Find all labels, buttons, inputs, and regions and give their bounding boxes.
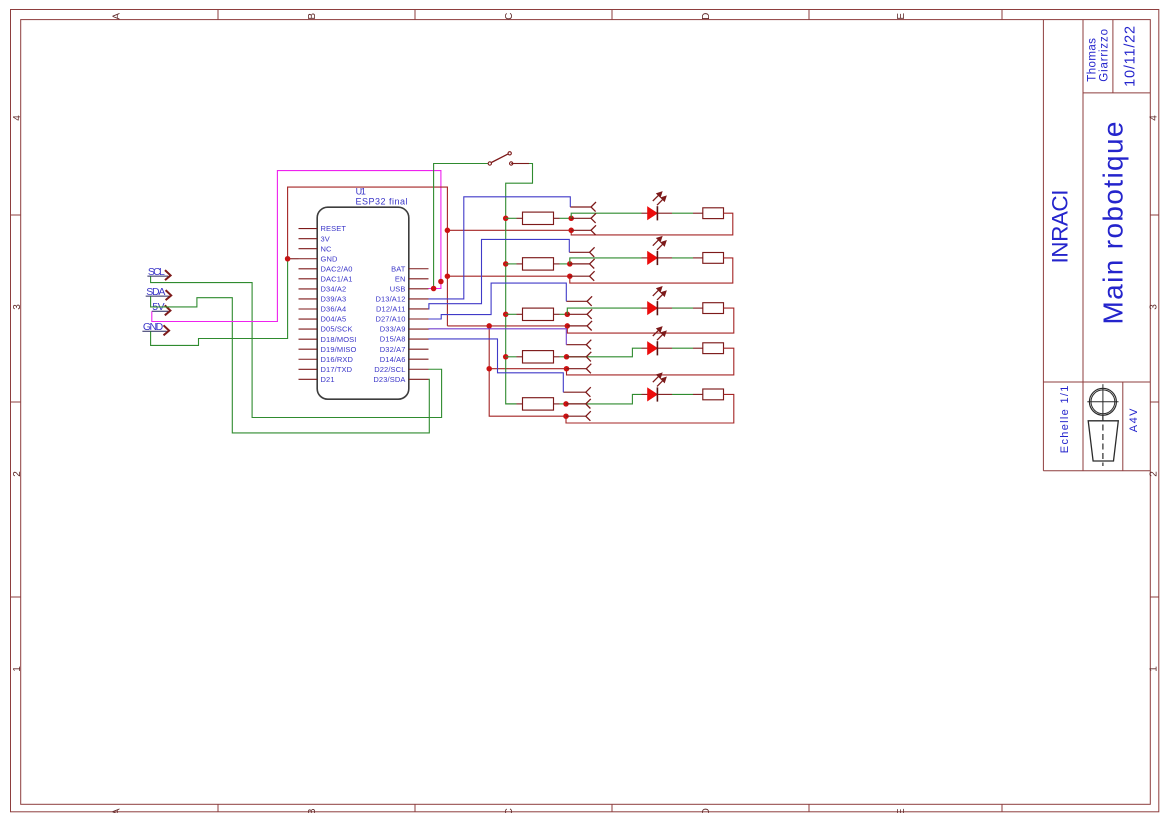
- wire GND riser to rows 4-5: [489, 326, 566, 416]
- svg-text:1: 1: [1148, 666, 1159, 672]
- wire signal D33/A9 to J4 pin1 (purple): [429, 329, 567, 345]
- svg-text:2: 2: [1148, 471, 1159, 477]
- wire signal D27/A10 to J3 pin1 (blue): [429, 283, 567, 319]
- svg-text:C: C: [504, 808, 515, 813]
- LED D2 light emission arrows: [653, 237, 666, 250]
- connector J2 pin3: [570, 271, 595, 281]
- svg-text:D05/SCK: D05/SCK: [321, 325, 353, 334]
- resistor R3B: [693, 303, 724, 314]
- U1 pin D15/A8: [380, 335, 429, 344]
- connector J1 pin2: [571, 213, 596, 223]
- U1 pin BAT: [391, 264, 428, 273]
- junction feed rail row2: [503, 261, 509, 267]
- wire return loop row2: [570, 258, 733, 283]
- wire switch input green (USB riser to switch): [434, 164, 488, 289]
- svg-text:D14/A6: D14/A6: [380, 355, 406, 364]
- svg-text:RESET: RESET: [321, 224, 347, 233]
- U1 pin D12/A11: [376, 305, 428, 314]
- wire to LED D1 anode: [571, 213, 641, 218]
- U1 pin NC: [299, 244, 333, 253]
- connector J2 pin1: [569, 247, 594, 257]
- junction feed rail row1: [503, 216, 509, 222]
- wire 5V net magenta (port to switch feed and USB pin): [152, 171, 441, 322]
- U1 pin D21: [299, 375, 335, 384]
- U1 pin 3V: [299, 234, 330, 243]
- U1 pin D05/SCK: [299, 325, 353, 334]
- U1 pin D22/SCL: [374, 365, 428, 374]
- svg-text:DAC1/A1: DAC1/A1: [321, 274, 353, 283]
- U1 pin D19/MISO: [299, 345, 357, 354]
- wire LED D3 cathode to resistor R3B: [672, 307, 693, 309]
- net port SCL: [147, 266, 170, 280]
- junction connector J4 pin2: [564, 354, 570, 360]
- svg-text:D34/A2: D34/A2: [321, 285, 347, 294]
- wire to LED D5 anode: [566, 394, 642, 404]
- svg-text:4: 4: [12, 115, 23, 121]
- wire resistor R4A to connector J4: [560, 356, 567, 358]
- connector J5 pin1: [563, 387, 591, 397]
- junction connector J1 pin2: [568, 216, 574, 222]
- wire resistor R5A to connector J5: [560, 403, 567, 405]
- wire feed to resistor R5A: [506, 403, 517, 405]
- junction GND row1: [445, 228, 451, 234]
- junction feed rail row3: [503, 312, 509, 318]
- junction GND rows 4-5 branch: [486, 323, 492, 329]
- resistor R5A: [517, 398, 560, 410]
- U1 pin D04/A5: [299, 315, 347, 324]
- connector J3 pin2: [567, 309, 592, 319]
- LED D1 light emission arrows: [653, 192, 666, 205]
- svg-text:D19/MISO: D19/MISO: [321, 345, 357, 354]
- resistor R5B: [693, 389, 724, 400]
- svg-text:D04/A5: D04/A5: [321, 315, 347, 324]
- LED D2: [642, 251, 673, 265]
- svg-text:D33/A9: D33/A9: [380, 325, 406, 334]
- svg-text:1: 1: [12, 666, 23, 672]
- wire SCL net (port to U1 D22/SCL): [151, 276, 442, 417]
- U1 pin D14/A6: [380, 355, 429, 364]
- svg-text:D21: D21: [321, 375, 335, 384]
- wire switch output to feed rail: [506, 164, 533, 404]
- junction connector J5 pin3: [563, 413, 569, 419]
- svg-text:D27/A10: D27/A10: [375, 315, 405, 324]
- wire LED D2 cathode to resistor R2B: [672, 257, 693, 259]
- U1 pin D18/MOSI: [299, 335, 357, 344]
- wire return loop row5: [566, 394, 734, 423]
- net port 5V: [152, 301, 171, 315]
- svg-text:Thomas: Thomas: [1086, 38, 1098, 82]
- U1 pin USB: [390, 284, 429, 293]
- LED D1: [642, 206, 673, 220]
- svg-text:D17/TXD: D17/TXD: [321, 365, 353, 374]
- connector J1 pin1: [570, 202, 596, 212]
- U1 pin RESET: [299, 224, 347, 233]
- svg-text:A4V: A4V: [1128, 408, 1140, 432]
- svg-text:A: A: [111, 13, 122, 20]
- svg-text:D15/A8: D15/A8: [380, 335, 406, 344]
- LED D3: [642, 301, 673, 315]
- wire feed to resistor R4A: [506, 356, 517, 358]
- wire LED D1 cathode to resistor R1B: [672, 212, 693, 214]
- connector J1 pin3: [571, 225, 596, 235]
- junction connector J4 pin3: [564, 366, 570, 372]
- svg-text:Giarrizzo: Giarrizzo: [1098, 29, 1110, 82]
- resistor R1A: [517, 212, 560, 224]
- connector J2 pin2: [570, 259, 595, 269]
- svg-text:D22/SCL: D22/SCL: [374, 365, 405, 374]
- svg-text:GND: GND: [321, 254, 338, 263]
- svg-text:EN: EN: [395, 274, 406, 283]
- U1 pin D36/A4: [299, 305, 347, 314]
- U1 pin D16/RXD: [299, 355, 354, 364]
- wire feed to resistor R1A: [506, 217, 517, 219]
- U1 pin D23/SDA: [373, 375, 428, 384]
- connector J3 pin3: [567, 321, 592, 331]
- svg-text:DAC2/A0: DAC2/A0: [321, 264, 353, 273]
- svg-text:D36/A4: D36/A4: [321, 305, 347, 314]
- wire signal D13/A12 to J1 pin1 (blue): [429, 197, 571, 299]
- svg-text:B: B: [307, 808, 318, 813]
- junction GND row4 branch: [486, 366, 492, 372]
- wire signal D15/A8 to J5 pin1 (blue): [429, 339, 564, 392]
- net port GND: [142, 321, 169, 335]
- junction connector J3 pin3: [565, 323, 571, 329]
- svg-text:D: D: [701, 13, 712, 20]
- junction connector J5 pin2: [563, 401, 569, 407]
- wire LED D5 cathode to resistor R5B: [672, 393, 693, 395]
- wire to LED D2 anode: [570, 258, 642, 264]
- wire return loop row1: [571, 213, 733, 235]
- svg-text:D12/A11: D12/A11: [376, 305, 405, 314]
- wire return loop row4: [567, 348, 734, 375]
- wire GND branch row1: [447, 229, 571, 231]
- svg-text:D: D: [701, 808, 712, 813]
- wire return loop row3: [567, 308, 734, 333]
- wire to LED D4 anode: [567, 348, 642, 357]
- svg-text:BAT: BAT: [391, 264, 406, 273]
- svg-text:2: 2: [12, 471, 23, 477]
- wire feed to resistor R2A: [506, 263, 517, 265]
- wire GND pin stub link: [288, 258, 299, 260]
- net port SDA: [146, 286, 172, 300]
- svg-text:NC: NC: [321, 244, 333, 253]
- wire GND branch row2: [447, 275, 569, 277]
- wire resistor R2A to connector J2: [560, 263, 570, 265]
- svg-text:U1: U1: [356, 187, 366, 197]
- svg-text:3: 3: [1148, 304, 1159, 310]
- resistor R1B: [693, 208, 724, 219]
- LED D5 light emission arrows: [653, 373, 666, 386]
- junction feed rail row4: [503, 354, 509, 360]
- svg-text:D23/SDA: D23/SDA: [373, 375, 405, 384]
- U1 pin D17/TXD: [299, 365, 353, 374]
- resistor R2B: [693, 253, 724, 264]
- svg-text:C: C: [504, 13, 515, 20]
- U1 pin D32/A7: [380, 345, 429, 354]
- junction connector J2 pin2: [567, 261, 573, 267]
- wire signal D12/A11 to J2 pin1 (blue): [429, 239, 570, 309]
- junction on 5V riser: [438, 279, 444, 285]
- resistor R4A: [517, 351, 560, 363]
- wire GND net green (port to U1 GND pin): [151, 259, 288, 346]
- junction connector J3 pin2: [565, 312, 571, 318]
- U1 pin D27/A10: [375, 315, 428, 324]
- LED D4 light emission arrows: [653, 327, 666, 340]
- LED D4: [642, 341, 673, 355]
- svg-text:A: A: [111, 808, 122, 813]
- connector J4 pin2: [567, 352, 592, 362]
- wire resistor R3A to connector J3: [560, 313, 568, 315]
- svg-text:B: B: [307, 13, 318, 20]
- U1 pin GND: [299, 254, 338, 263]
- junction connector J1 pin3: [568, 228, 574, 234]
- svg-text:D16/RXD: D16/RXD: [321, 355, 354, 364]
- svg-text:D32/A7: D32/A7: [380, 345, 406, 354]
- junction connector J2 pin3: [567, 273, 573, 279]
- wire GND net red riser from U1 GND pin: [288, 187, 448, 326]
- U1 pin EN: [395, 274, 429, 283]
- U1 pin DAC2/A0: [299, 264, 353, 273]
- connector J5 pin2: [566, 399, 591, 409]
- wire GND branch row3: [447, 325, 567, 327]
- resistor R3A: [517, 308, 560, 320]
- U1 pin D39/A3: [299, 295, 347, 304]
- U1 pin D33/A9: [380, 325, 429, 334]
- svg-text:10/11/22: 10/11/22: [1123, 26, 1139, 87]
- svg-text:E: E: [896, 808, 907, 813]
- first-angle projection symbol: [1087, 384, 1118, 466]
- svg-text:D18/MOSI: D18/MOSI: [321, 335, 357, 344]
- svg-text:3: 3: [12, 304, 23, 310]
- svg-text:Echelle 1/1: Echelle 1/1: [1059, 386, 1071, 454]
- resistor R2A: [517, 258, 560, 270]
- svg-text:D39/A3: D39/A3: [321, 295, 347, 304]
- svg-text:E: E: [896, 13, 907, 20]
- junction GND row2: [445, 273, 451, 279]
- svg-text:D13/A12: D13/A12: [375, 295, 405, 304]
- wire GND branch row4: [489, 368, 566, 370]
- U1 pin D13/A12: [375, 295, 428, 304]
- svg-text:ESP32 final: ESP32 final: [356, 197, 408, 207]
- connector J4 pin1: [566, 340, 591, 350]
- junction at USB pin (5V/switch): [431, 286, 437, 292]
- svg-text:4: 4: [1148, 115, 1159, 121]
- connector J4 pin3: [567, 364, 592, 374]
- U1 pin DAC1/A1: [299, 274, 353, 283]
- wire feed to resistor R3A: [506, 313, 517, 315]
- wire to LED D3 anode: [567, 308, 641, 314]
- wire SDA net (port to U1 D23/SDA): [151, 296, 430, 433]
- U1 pin D34/A2: [299, 285, 347, 294]
- svg-text:Main robotique: Main robotique: [1098, 122, 1129, 325]
- LED D5: [642, 387, 673, 401]
- LED D3 light emission arrows: [653, 287, 666, 300]
- wire resistor R1A to connector J1: [560, 217, 572, 219]
- resistor R4B: [693, 343, 724, 354]
- connector J3 pin1: [566, 296, 592, 306]
- switch SW1: [488, 152, 513, 166]
- junction at U1 GND pin: [285, 256, 291, 262]
- svg-text:3V: 3V: [321, 234, 330, 243]
- svg-text:USB: USB: [390, 284, 406, 293]
- svg-text:INRACI: INRACI: [1048, 190, 1073, 264]
- title block: [1043, 20, 1150, 471]
- wire LED D4 cathode to resistor R4B: [672, 347, 693, 349]
- IC U1 ESP32 module body: [317, 187, 409, 400]
- connector J5 pin3: [566, 411, 591, 421]
